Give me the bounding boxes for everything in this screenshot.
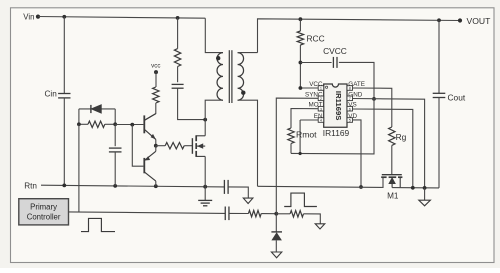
node vcc terminal [154,70,158,74]
wire vcc to resistor [155,72,157,87]
wire drive input drop [78,124,80,212]
wire RCC top [299,19,301,31]
wire sync node to R2 [276,213,290,215]
node junction rail-RCC [299,17,303,21]
svg-text:Cin: Cin [45,89,58,98]
resistor gate R [165,143,184,149]
node junction EN-GND line [299,152,302,155]
diode D1 anti-parallel [79,105,115,113]
resistor sync R1 [248,210,261,216]
wire D1 right leg [114,109,116,124]
resistor Rmot [288,128,294,144]
wire VCC pin [300,87,318,89]
transformer T1 secondary winding [238,53,244,101]
wire base node to Q1 [115,124,143,126]
svg-text:EN: EN [314,113,323,120]
pin label EN [314,113,323,120]
svg-text:SYNC: SYNC [305,91,323,98]
wire Qp drain [204,120,206,136]
svg-text:MOT: MOT [309,102,323,109]
wire GND drop to EN line [291,99,374,154]
resistor vcc collector R [153,87,159,103]
wire VD pin [353,120,362,187]
wire controller output line [69,212,226,214]
node junction VD-rail [359,185,363,189]
wire drain rail [392,187,439,189]
ground primary power ground [198,187,212,206]
wire snubber mid [177,67,179,83]
wire Rtn rail [41,185,224,187]
IC pin numbers [320,87,351,123]
wire EN pin [300,119,318,121]
label vcc [151,63,160,70]
label M1 [387,191,399,200]
svg-text:Rtn: Rtn [24,181,37,190]
wire primary bottom lead [205,100,223,119]
wire Cout bottom [438,98,440,188]
label Rg [396,132,407,142]
wire D1 left leg [78,109,80,124]
svg-text:GND: GND [348,91,362,98]
node junction VCC pin tap [299,86,303,90]
svg-text:Rg: Rg [396,132,407,142]
wire EN drop [299,120,301,154]
node junction snubber-drain [203,118,207,122]
wire base split drop to Q2 pnp [132,125,143,167]
wire base cap lower [114,152,116,186]
node junction Rtn-ground [203,185,207,189]
svg-text:VS: VS [348,102,356,109]
wire CVCC right [339,62,374,99]
capacitor Y-cap on controller line [225,207,229,221]
wire collector [144,103,156,120]
transformer T1 core [229,50,232,103]
svg-text:vcc: vcc [151,63,160,70]
svg-text:VD: VD [348,113,357,120]
wire secondary source rail [258,177,384,187]
wire SYNC pin [276,98,318,214]
ground earth-arrow right of sync R2 [315,224,325,229]
node junction driver output [154,144,158,148]
capacitor snubber C [172,84,184,88]
pin label GND [348,91,362,98]
wire base cap upper [114,124,116,146]
op-amp U1 IR1169S body [324,84,347,127]
label Cin [45,89,58,98]
node junction VCC node [299,61,303,65]
resistor Rg [389,127,395,145]
svg-text:Vin: Vin [23,12,34,21]
label CVCC [323,46,347,56]
node primary phasing dot [216,56,220,60]
svg-text:GATE: GATE [348,81,365,88]
wire GND pin [353,99,425,188]
transistor Q1 (NPN upper) [144,114,156,140]
wire gate R to Qp gate [184,145,192,147]
capacitor Cout [433,93,446,97]
node junction Rtn-Q2pnp [154,184,158,188]
wire Q1 emitter to node [155,139,157,145]
wire secondary top lead [238,52,258,54]
wire Q2 collector to Rtn [155,181,157,186]
node Vin terminal [36,15,40,19]
svg-text:Cout: Cout [448,92,466,102]
label Rmot [296,130,317,140]
node junction drive input left [77,122,81,126]
wire Rg to M1 gate [391,145,393,174]
node junction base node [113,122,117,126]
wire driver output [156,145,165,147]
wire snubber bottom [178,88,206,119]
wire Vin rail [38,17,205,19]
transistor Q2 (PNP lower) [144,151,156,181]
pin label VS [348,102,356,109]
capacitor base C [109,148,122,152]
capacitor Cin [58,94,70,98]
transformer T1 primary winding [217,53,223,101]
wire R2 to earth [304,214,321,224]
pin label VCC [309,81,323,88]
svg-text:VCC: VCC [309,81,323,88]
ground earth-arrow below M1 rail [419,188,431,206]
node secondary phasing dot [241,91,245,95]
svg-text:VOUT: VOUT [467,16,492,26]
label IR1169S inside chip [334,91,343,121]
svg-text:Primary: Primary [30,202,57,211]
wire Rtn rail to earth [228,187,248,198]
pin label GATE [348,81,365,88]
waveform sync pulse [284,193,317,206]
node junction VOUT-Cout [437,18,441,22]
svg-text:IR1169: IR1169 [323,128,350,138]
ground earth-arrow right of Rtn cap [243,198,253,203]
label RCC [307,34,325,44]
wire controller line cont [229,212,248,214]
node junction Rtn-capB [113,184,117,188]
ground earth-arrow below D2 [271,252,281,258]
wire to sync node [261,213,276,215]
resistor RCC [297,31,303,45]
diode D2 sync clamp [271,214,282,252]
resistor base R parallel D1 [79,121,115,127]
label Cout [448,92,466,102]
svg-text:Rmot: Rmot [296,130,317,140]
IC pin pads [318,86,352,123]
wire GATE pin [353,88,392,127]
node junction Rtn-Cin [62,184,66,188]
capacitor CVCC [333,57,337,68]
pin label VD [348,113,357,120]
wire secondary bottom lead [238,100,258,186]
node junction SYNC node [274,212,278,216]
label VOUT [467,16,492,26]
svg-text:Controller: Controller [27,212,61,221]
node junction rail-VS [411,186,415,190]
waveform primary drive pulse [81,218,115,231]
wire CVCC left [300,62,331,64]
wire secondary top rail [258,19,461,53]
capacitor Y-cap on Rtn rail [224,180,228,194]
wire Cout top [438,20,440,93]
svg-text:CVCC: CVCC [323,46,347,56]
node junction rail-GND [423,186,427,190]
svg-text:RCC: RCC [307,34,325,44]
pin label SYNC [305,91,323,98]
node junction base split [130,123,134,127]
node junction GND-CVCC [372,97,376,101]
pin label MOT [309,102,323,109]
wire Cin upper [63,17,65,94]
label Rtn [24,181,37,190]
wire MOT pin [291,109,318,129]
transistor M1 (SR MOSFET) [381,175,402,188]
wire Cin lower [63,98,65,186]
resistor sync R2 [290,211,303,217]
svg-text:M1: M1 [387,191,399,200]
svg-text:IR1169S: IR1169S [334,91,343,121]
wire Rmot bottom [290,144,292,154]
wire primary top lead [205,18,223,52]
node junction Vin-snubber [176,16,180,20]
wire Qp source [204,156,206,186]
label IR1169 below chip [323,128,350,138]
wire RCC bottom [299,45,301,88]
wire snubber top [177,18,179,49]
node junction Vin-Cin [62,15,66,19]
label Vin [23,12,34,21]
resistor snubber R [174,49,180,67]
node VOUT terminal [458,18,462,22]
wire VS pin [353,109,413,188]
wire Q2 emitter to node [155,146,157,152]
Primary Controller box [19,199,69,225]
transistor Qp (primary MOSFET) [192,135,205,157]
